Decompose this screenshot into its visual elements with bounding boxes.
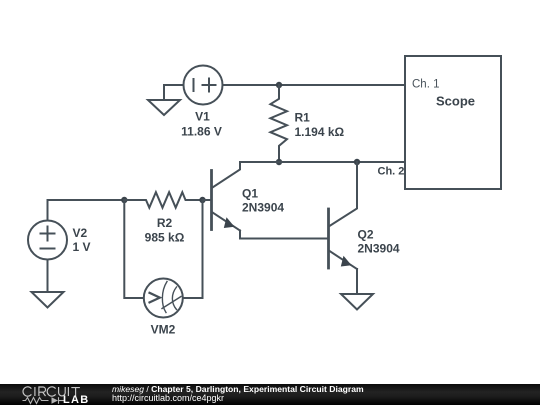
svg-text:R2: R2 <box>157 216 173 230</box>
resistor R2 <box>124 192 202 208</box>
resistor R1 <box>270 85 287 162</box>
svg-text:2N3904: 2N3904 <box>358 242 400 256</box>
footer title text <box>112 385 364 395</box>
wire middle rail: Q1 collector to scope Ch.2 <box>240 161 405 163</box>
svg-text:V1: V1 <box>195 110 210 124</box>
label R1 1.194 kOhm <box>295 111 345 139</box>
wire top rail: V1 to scope Ch.1 <box>223 84 406 86</box>
node junction: top of R1 <box>276 82 282 88</box>
svg-text:R1: R1 <box>295 111 311 125</box>
node junction: Q2 collector on middle rail <box>354 159 360 165</box>
svg-text:1 V: 1 V <box>73 240 91 254</box>
transistor Q1 2N3904 <box>212 162 241 231</box>
label Q1 2N3904 <box>242 187 284 215</box>
CircuitLab logo <box>0 384 100 405</box>
node junction: R2 right / Q1 base <box>199 197 205 203</box>
wire R2 right to Q1 base <box>203 199 211 201</box>
ground GND3 (V2) <box>32 292 64 308</box>
wire V2 positive to R2 node <box>48 200 125 221</box>
footer bar <box>0 384 540 405</box>
wire Q1 emitter to Q2 base <box>240 231 329 239</box>
wire VM2 left branch <box>124 200 144 298</box>
svg-text:11.86 V: 11.86 V <box>181 125 222 139</box>
label V2 1 V <box>73 226 91 254</box>
label R2 985 kOhm <box>145 216 185 244</box>
label Q2 2N3904 <box>358 228 400 256</box>
voltmeter VM2 <box>144 279 183 318</box>
svg-text:Ch. 2: Ch. 2 <box>378 165 405 177</box>
wire V2 negative to ground <box>47 260 49 293</box>
node junction: R2 left / VM2 branch <box>121 197 127 203</box>
footer url <box>112 394 224 404</box>
svg-text:V2: V2 <box>73 226 88 240</box>
label V1 11.86 V <box>181 110 222 139</box>
node junction: bottom of R1 on middle rail <box>276 159 282 165</box>
scope box <box>405 56 501 189</box>
svg-text:Scope: Scope <box>436 94 475 109</box>
svg-text:2N3904: 2N3904 <box>242 201 284 215</box>
ground GND1 (V1) <box>148 100 180 115</box>
ground GND2 (Q2) <box>341 294 373 310</box>
wire Q2 emitter to ground <box>356 269 358 294</box>
wire VM2 right branch <box>183 200 203 298</box>
transistor Q2 2N3904 <box>329 162 358 269</box>
svg-text:LAB: LAB <box>63 394 90 405</box>
svg-text:985 kΩ: 985 kΩ <box>145 230 185 244</box>
svg-text:VM2: VM2 <box>151 323 176 337</box>
voltage source V2 <box>28 221 67 260</box>
svg-text:Q1: Q1 <box>242 187 258 201</box>
svg-text:Q2: Q2 <box>358 228 374 242</box>
svg-text:1.194 kΩ: 1.194 kΩ <box>295 125 345 139</box>
wire V1 negative terminal to ground <box>164 85 184 100</box>
voltage source V1 <box>184 66 223 105</box>
svg-text:Ch. 1: Ch. 1 <box>412 79 440 91</box>
